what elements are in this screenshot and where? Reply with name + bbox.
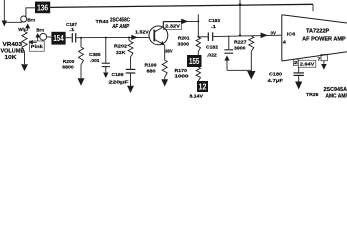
svg-text:0V: 0V bbox=[271, 31, 277, 36]
wire R201 branch bbox=[197, 14, 199, 37]
wire pin 7 down bbox=[323, 61, 325, 64]
B+ feed vertical wire bbox=[239, 0, 241, 35]
wire box 154 to C187 bbox=[66, 37, 72, 39]
svg-text:2.32V: 2.32V bbox=[165, 23, 181, 28]
callout box Pink bbox=[30, 41, 45, 51]
svg-text:3300: 3300 bbox=[178, 41, 190, 46]
svg-text:AF POWER AMP: AF POWER AMP bbox=[302, 36, 346, 42]
signal wire C183 to IC6 bbox=[213, 35, 281, 36]
svg-text:C182: C182 bbox=[206, 45, 218, 50]
svg-text:2.94V: 2.94V bbox=[300, 61, 315, 66]
label .88V bbox=[164, 48, 173, 53]
label 3300 bbox=[178, 41, 190, 46]
label 4.7uF bbox=[268, 78, 284, 83]
capacitor C182 .022 bbox=[224, 36, 233, 54]
svg-text:Brn: Brn bbox=[27, 17, 35, 22]
svg-text:C183: C183 bbox=[209, 18, 221, 23]
svg-text:4.7μF: 4.7μF bbox=[268, 78, 284, 83]
label Brn (J1) bbox=[27, 17, 35, 22]
label .1 (C183) bbox=[211, 24, 217, 29]
svg-text:1000: 1000 bbox=[175, 74, 190, 79]
TR43 collector bbox=[155, 22, 163, 32]
svg-text:VR403: VR403 bbox=[3, 42, 23, 48]
junction dot C183 left bbox=[197, 36, 199, 38]
label 2SC458C bbox=[110, 17, 130, 23]
ground arrow below R227 bbox=[247, 71, 255, 80]
wire number box 136 bbox=[35, 2, 50, 14]
svg-text:2SC945A: 2SC945A bbox=[324, 87, 347, 93]
svg-text:R170: R170 bbox=[175, 68, 188, 73]
label 1.52V bbox=[135, 30, 150, 35]
svg-text:IC6: IC6 bbox=[287, 31, 296, 36]
svg-text:8.14V: 8.14V bbox=[190, 93, 204, 98]
svg-text:6800: 6800 bbox=[62, 64, 74, 69]
connector arrow Pink (to J2) bbox=[35, 33, 40, 41]
ground arrow below R200 bbox=[78, 78, 85, 86]
svg-text:Pink: Pink bbox=[31, 44, 44, 49]
label 2SC945A bbox=[324, 87, 347, 93]
resistor R202 22K bbox=[128, 38, 133, 69]
label Brn (J2) bbox=[36, 28, 44, 33]
wire C182 to R227 ground bbox=[227, 69, 251, 71]
label R170 bbox=[175, 68, 188, 73]
label C182 bbox=[206, 45, 218, 50]
base wire to TR43 bbox=[76, 36, 149, 38]
resistor R200 6800 bbox=[79, 38, 84, 79]
label VR403 bbox=[3, 42, 23, 48]
svg-text:R202: R202 bbox=[114, 44, 128, 49]
op-amp IC6 triangle bbox=[282, 15, 347, 61]
svg-text:680: 680 bbox=[147, 69, 157, 74]
label C183 bbox=[209, 18, 221, 23]
label TR43 bbox=[96, 19, 109, 25]
svg-text:.1: .1 bbox=[69, 27, 75, 32]
capacitor C187 bbox=[72, 33, 75, 42]
capacitor C385 .001 bbox=[102, 38, 110, 73]
junction dot R202 bbox=[128, 37, 130, 39]
collector wire bbox=[163, 20, 198, 22]
label C385 bbox=[89, 52, 101, 57]
label R199 bbox=[145, 62, 157, 67]
svg-text:C180: C180 bbox=[269, 72, 282, 77]
label .001 (C385) bbox=[90, 58, 100, 63]
label R227 bbox=[234, 39, 247, 44]
label 220uF bbox=[109, 79, 129, 84]
label C187 bbox=[66, 22, 77, 27]
wire to connector J1 bbox=[4, 21, 21, 22]
label AMC AMP bbox=[326, 93, 347, 99]
wire J2 to box 154 bbox=[47, 36, 52, 38]
svg-text:.001: .001 bbox=[90, 58, 100, 63]
resistor R201 3300 bbox=[196, 37, 200, 55]
resistor R170 1000 bbox=[196, 67, 200, 81]
label 680 bbox=[147, 69, 157, 74]
connector arrow below C182 bbox=[224, 55, 229, 70]
voltage callout 2.32V bbox=[164, 22, 182, 30]
label AF AMP bbox=[111, 24, 129, 30]
junction dot rail crossing bbox=[239, 3, 242, 6]
label TA7222P bbox=[306, 28, 330, 34]
capacitor C183 bbox=[208, 32, 212, 41]
connector arrow Wh (to J1) bbox=[25, 23, 31, 31]
signal arrow to IC6 bbox=[261, 33, 268, 39]
resistor R199 680 bbox=[162, 60, 167, 79]
pin 7 box (IC6) bbox=[321, 55, 327, 61]
label .022 bbox=[207, 52, 217, 57]
label .1 (C187) bbox=[69, 27, 75, 32]
svg-text:220μF: 220μF bbox=[109, 79, 129, 84]
potentiometer VR403 10K bbox=[22, 32, 27, 52]
svg-text:154: 154 bbox=[53, 34, 64, 43]
label R202 bbox=[114, 44, 128, 49]
wire collector node to C183 bbox=[198, 36, 208, 38]
label 0V bbox=[271, 31, 277, 36]
svg-text:TR43: TR43 bbox=[96, 19, 109, 25]
connector J2 (Pink plug) bbox=[40, 33, 47, 40]
pin 4 label (IC6 input) bbox=[283, 39, 287, 44]
TR43 emitter with arrow bbox=[155, 40, 165, 61]
svg-text:12: 12 bbox=[199, 82, 208, 91]
ground arrow below C180 bbox=[295, 82, 302, 90]
svg-text:155: 155 bbox=[189, 57, 200, 66]
svg-text:1.52V: 1.52V bbox=[135, 30, 150, 35]
label R200 bbox=[63, 59, 75, 64]
svg-text:22K: 22K bbox=[116, 50, 126, 55]
junction dot signal wire bbox=[239, 34, 241, 36]
pin 2 box (IC6) bbox=[293, 59, 298, 65]
label 1000 bbox=[175, 74, 190, 79]
svg-text:R200: R200 bbox=[63, 59, 75, 64]
voltage callout 2.94V bbox=[298, 60, 316, 67]
svg-text:VOLUME: VOLUME bbox=[1, 48, 25, 54]
label pin 7 bbox=[317, 57, 321, 62]
resistor R227 3900 bbox=[249, 36, 254, 72]
wire rail drop to IC6 top pin bbox=[312, 4, 314, 11]
supply rail wire bbox=[50, 4, 313, 7]
svg-text:TA7222P: TA7222P bbox=[306, 28, 330, 34]
svg-text:R201: R201 bbox=[178, 36, 190, 41]
label IC6 bbox=[287, 31, 296, 36]
label VOLUME bbox=[1, 48, 25, 54]
svg-text:R227: R227 bbox=[234, 39, 247, 44]
ground arrow below C186 bbox=[127, 86, 134, 93]
TR43 base bar bbox=[153, 30, 155, 42]
wire incoming feed at top-left bbox=[3, 0, 5, 22]
junction dot collector node bbox=[197, 20, 199, 22]
transistor TR43 circle bbox=[149, 26, 168, 45]
connector J1 (Brn plug) bbox=[21, 16, 27, 22]
svg-text:TR26: TR26 bbox=[306, 92, 319, 97]
label R201 bbox=[178, 36, 190, 41]
wire J1 to box 136 bbox=[26, 8, 35, 17]
ground arrow below pin 7 bbox=[321, 64, 327, 70]
label 6800 bbox=[62, 64, 74, 69]
label C186 bbox=[112, 72, 124, 77]
label 3900 bbox=[234, 46, 246, 51]
svg-text:136: 136 bbox=[37, 3, 48, 12]
svg-text:10K: 10K bbox=[5, 55, 17, 61]
svg-text:.022: .022 bbox=[207, 52, 217, 57]
label TR26 bbox=[306, 92, 319, 97]
label 8.14V bbox=[190, 93, 204, 98]
wiper arrow of VR403 bbox=[28, 40, 36, 44]
svg-text:R199: R199 bbox=[145, 62, 157, 67]
label 10K bbox=[5, 55, 17, 61]
wire number box 12 bbox=[197, 81, 208, 92]
capacitor C186 220uF bbox=[126, 69, 136, 86]
svg-text:.88V: .88V bbox=[164, 48, 173, 53]
svg-text:2SC458C: 2SC458C bbox=[110, 17, 130, 23]
off-page arrow down (left feed) bbox=[2, 21, 7, 27]
wire number box 154 bbox=[51, 32, 65, 45]
svg-text:C186: C186 bbox=[112, 72, 124, 77]
label AF POWER AMP bbox=[302, 36, 346, 42]
label 22K bbox=[116, 50, 126, 55]
wire number box 155 bbox=[187, 55, 202, 67]
svg-text:.1: .1 bbox=[211, 24, 217, 29]
svg-text:3900: 3900 bbox=[234, 46, 246, 51]
signal arrow on base wire bbox=[131, 35, 138, 40]
label Wh bbox=[18, 27, 25, 32]
svg-text:AMC AMP: AMC AMP bbox=[326, 93, 347, 99]
junction dot C385 bbox=[105, 37, 107, 39]
svg-text:Brn: Brn bbox=[36, 28, 44, 33]
ground arrow below C385 bbox=[103, 73, 108, 79]
junction dot R200 bbox=[80, 37, 82, 39]
ground arrow below VR403 bbox=[21, 52, 28, 72]
signal arrow on collector wire bbox=[181, 19, 188, 25]
ground arrow below R199 bbox=[161, 79, 168, 86]
capacitor C180 4.7uF bbox=[294, 67, 304, 81]
label C180 bbox=[269, 72, 282, 77]
svg-text:C385: C385 bbox=[89, 52, 101, 57]
svg-text:AF AMP: AF AMP bbox=[111, 24, 129, 30]
